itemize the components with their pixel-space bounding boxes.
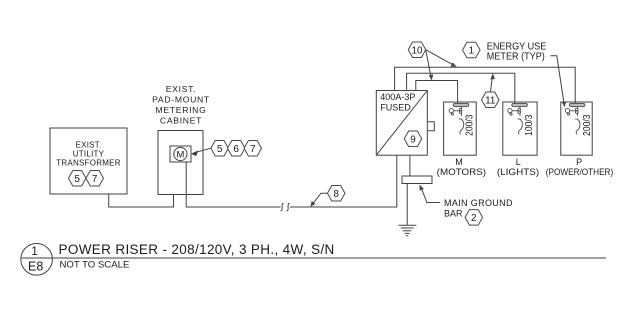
panel L meter and breaker (508, 103, 528, 134)
svg-text:UTILITY: UTILITY (73, 150, 105, 159)
hexagon keynote 7 (transformer) (86, 171, 104, 187)
panel P meter and breaker (565, 103, 585, 134)
svg-text:1: 1 (31, 246, 37, 258)
leader from keynote 5 to meter M (193, 148, 211, 153)
wire meter to service switch (left part, with break) (186, 162, 280, 207)
svg-text:PAD-MOUNT: PAD-MOUNT (152, 94, 210, 104)
svg-text:200/3: 200/3 (463, 114, 475, 136)
svg-text:1: 1 (469, 46, 475, 57)
svg-text:8: 8 (333, 189, 339, 200)
wire transformer secondary to cabinet (109, 194, 174, 207)
switch ground conductor (409, 155, 411, 176)
svg-text:10: 10 (411, 45, 423, 56)
meter M circle (174, 147, 187, 160)
svg-text:5: 5 (217, 144, 223, 155)
conductor break marks (281, 203, 284, 211)
svg-text:100/3: 100/3 (523, 114, 535, 136)
disconnect switch 400A-3P box (376, 91, 427, 156)
ground conductor to earth (406, 184, 408, 225)
cabinet label (152, 84, 210, 125)
feeder riser to panel M (416, 81, 458, 104)
meter M square (170, 146, 191, 162)
svg-text:L: L (516, 157, 521, 167)
svg-text:E8: E8 (28, 259, 43, 273)
hexagon keynote 7 (244, 140, 261, 156)
leader main ground bar note (421, 187, 440, 203)
leader from keynote 8 to wire (312, 193, 328, 205)
svg-text:7: 7 (92, 174, 98, 185)
switch handle tab (427, 122, 434, 131)
svg-text:POWER RISER - 208/120V, 3 PH.,: POWER RISER - 208/120V, 3 PH., 4W, S/N (59, 242, 335, 257)
svg-text:EXIST.: EXIST. (76, 141, 102, 150)
panel M meter and breaker (449, 103, 469, 134)
feeder riser to panel L (407, 73, 515, 103)
svg-text:M: M (455, 157, 463, 167)
hexagon keynote 5 (transformer) (68, 171, 86, 187)
main ground bar (402, 176, 432, 184)
leader energy use meter note to panel P meter (551, 56, 565, 104)
ground symbol (398, 224, 416, 226)
switch diagonal (376, 91, 427, 156)
svg-text:CABINET: CABINET (160, 115, 202, 125)
svg-text:400A-3P: 400A-3P (380, 92, 415, 102)
svg-text:2: 2 (471, 213, 477, 224)
hexagon keynote 2 (465, 210, 483, 226)
svg-text:(POWER/OTHER): (POWER/OTHER) (546, 167, 613, 177)
leader keynote 10 to riser M (426, 50, 432, 79)
leader keynote 11 to riser L (491, 76, 493, 92)
svg-text:5: 5 (74, 174, 80, 185)
hexagon keynote 8 (327, 185, 345, 201)
wire meter to service switch (right part) (290, 155, 397, 207)
svg-text:(LIGHTS): (LIGHTS) (497, 167, 539, 177)
svg-text:7: 7 (250, 144, 256, 155)
hexagon keynote 11 (482, 92, 500, 108)
leader keynote 10 to riser P (426, 50, 455, 66)
svg-text:NOT TO SCALE: NOT TO SCALE (60, 259, 130, 270)
hexagon keynote 5 (211, 140, 229, 156)
svg-text:P: P (576, 157, 582, 167)
panel M box (444, 102, 477, 155)
hexagon keynote 1 (energy use meter) (463, 42, 481, 58)
svg-text:FUSED: FUSED (380, 102, 411, 112)
feeder riser to panel P (395, 67, 576, 103)
svg-text:MAIN GROUND: MAIN GROUND (444, 198, 513, 208)
transformer T1 box (50, 128, 127, 194)
metering cabinet box (158, 131, 203, 195)
hexagon keynote 10 (408, 42, 426, 58)
hexagon keynote 6 (227, 140, 245, 156)
svg-text:200/3: 200/3 (581, 114, 593, 136)
panel L box (503, 102, 537, 155)
svg-text:BAR: BAR (444, 209, 463, 219)
panel P box (561, 102, 592, 155)
svg-text:11: 11 (485, 95, 496, 106)
transformer label (56, 141, 121, 168)
svg-text:M: M (176, 148, 184, 159)
svg-text:9: 9 (410, 134, 416, 145)
svg-text:EXIST.: EXIST. (166, 84, 196, 94)
svg-text:6: 6 (233, 144, 239, 155)
svg-text:(MOTORS): (MOTORS) (437, 167, 486, 177)
svg-text:TRANSFORMER: TRANSFORMER (56, 159, 121, 168)
title bubble circle (21, 243, 53, 275)
title separator line (21, 257, 606, 259)
svg-text:METERING: METERING (156, 105, 207, 115)
hexagon keynote 9 (404, 131, 422, 147)
svg-text:METER (TYP): METER (TYP) (487, 52, 545, 63)
